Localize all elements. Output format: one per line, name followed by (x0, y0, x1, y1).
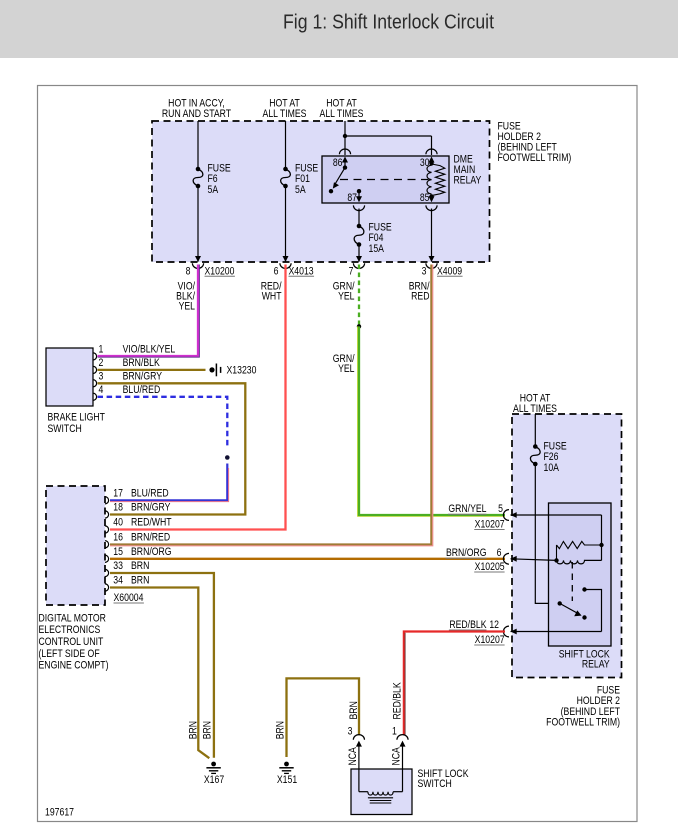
splice node on GRN/YEL (357, 324, 361, 328)
svg-text:BRN: BRN (275, 721, 287, 739)
relay switch rest contact dot (329, 189, 333, 193)
figure number 197617 (45, 807, 74, 819)
exit arrow at x=431.5 (429, 256, 435, 262)
relay resistor junction dot (599, 543, 603, 547)
svg-text:30: 30 (420, 157, 430, 169)
wire: pin 87 down to fuse F04 (358, 209, 360, 227)
svg-text:34: 34 (113, 575, 123, 587)
wire RED/BLK relay pin 12 to shift lock switch pin 1 (404, 632, 505, 736)
wire: feed into fuse F26 (534, 414, 536, 447)
DME pin 33 (105, 569, 109, 576)
svg-text:X10207: X10207 (475, 634, 505, 646)
wire: fuse F04 to connector 7 (358, 245, 360, 262)
brake light switch box (46, 348, 93, 406)
svg-text:ALL TIMES: ALL TIMES (263, 108, 307, 120)
wire BRN shift lock switch pin 3 to ground X151 (287, 678, 360, 757)
svg-text:1: 1 (99, 344, 104, 356)
svg-text:BRAKE LIGHT: BRAKE LIGHT (48, 412, 105, 424)
brake switch pin 3 (93, 380, 97, 387)
wire GRN/YEL dashed segment from connector 7 (358, 265, 360, 327)
wire: feed 1 vertical (197, 121, 199, 169)
svg-text:X10207: X10207 (475, 519, 505, 531)
relay pin 30 (426, 149, 437, 154)
svg-text:33: 33 (113, 560, 123, 572)
wire BRN/RED (brown/red) connector 3 to DME pin 16 (110, 265, 433, 546)
svg-text:RELAY: RELAY (582, 659, 610, 671)
shift lock switch box (351, 769, 412, 815)
DME pin 34 (105, 584, 109, 591)
svg-text:5A: 5A (295, 184, 306, 196)
svg-text:85: 85 (420, 192, 430, 204)
svg-text:BLU/RED: BLU/RED (123, 384, 161, 396)
connector label X60004 (114, 592, 144, 604)
label BRN/ORG 6 X10205 (446, 547, 487, 559)
fuse holder 2 dashed box (right) (512, 414, 622, 678)
svg-text:RED/WHT: RED/WHT (131, 517, 172, 529)
svg-text:5A: 5A (208, 184, 219, 196)
svg-text:BRN/ORG: BRN/ORG (131, 546, 172, 558)
label RED/BLK 12 X10207 (449, 619, 487, 631)
svg-text:12: 12 (489, 619, 499, 631)
svg-text:FOOTWELL TRIM): FOOTWELL TRIM) (498, 152, 572, 164)
svg-text:(LEFT SIDE OF: (LEFT SIDE OF (39, 648, 100, 660)
wire GRN/YEL solid to shift lock relay pin 5 (358, 326, 505, 516)
relay pin 5 internal line (511, 512, 517, 518)
svg-text:BRN: BRN (188, 721, 200, 739)
exit arrow at x=198 (195, 256, 201, 262)
relay resistor (zigzag) (557, 541, 602, 548)
relay mechanical link (dashed) (340, 179, 429, 181)
svg-text:X151: X151 (277, 774, 298, 786)
fuse F6 5A (196, 167, 201, 172)
svg-text:15A: 15A (369, 243, 385, 255)
DME pin 18 (105, 511, 109, 518)
wire BRN/GRY pin 3 to DME pin 18 (98, 383, 246, 514)
svg-text:18: 18 (113, 502, 123, 514)
svg-text:3: 3 (422, 265, 427, 277)
svg-text:1: 1 (392, 726, 397, 738)
wire VIO/BLK/YEL (violet) connector 8 to brake light switch pin 1 (98, 265, 199, 357)
svg-text:RED/BLK: RED/BLK (392, 682, 404, 720)
svg-text:7: 7 (349, 265, 354, 277)
svg-text:6: 6 (497, 547, 502, 559)
brake light switch caption (48, 412, 105, 424)
svg-text:YEL: YEL (338, 291, 355, 303)
brake switch pin 4 (93, 393, 97, 400)
svg-text:3: 3 (348, 726, 353, 738)
connector label 8 X10200 (186, 265, 191, 277)
feed label HOT IN ACCY, RUN AND START (168, 97, 225, 109)
svg-text:86: 86 (333, 157, 343, 169)
svg-text:NCA: NCA (347, 747, 359, 766)
svg-text:RELAY: RELAY (454, 175, 482, 187)
svg-text:RED: RED (411, 291, 429, 303)
fuse holder 2 dashed box (top) (152, 121, 490, 262)
shift lock relay caption (559, 649, 610, 661)
svg-text:87: 87 (347, 192, 357, 204)
relay coil resistor (zigzag) (432, 164, 445, 196)
svg-text:YEL: YEL (179, 301, 196, 313)
wire BRN/ORG DME pin 15 to shift lock relay pin 6 (110, 558, 505, 560)
wire BRN label at X151 (275, 721, 287, 739)
wire label BRN/RED (409, 281, 430, 293)
svg-text:197617: 197617 (45, 807, 74, 819)
relay coil (557, 560, 602, 563)
connector label 3 X4009 (422, 265, 427, 277)
switch pin 3 connector (348, 726, 353, 738)
shift lock switch caption (418, 768, 469, 780)
svg-text:NCA: NCA (391, 747, 403, 766)
relay pin 86 connector arc (339, 149, 350, 154)
svg-text:4: 4 (99, 384, 104, 396)
svg-text:SWITCH: SWITCH (418, 778, 452, 790)
relay pin 6 internal line (511, 556, 517, 562)
exit arrow at x=285.5 (283, 256, 289, 262)
relay switch arm (86 to throw) (343, 165, 347, 169)
wire BLU/RED dashed from pin 4 (98, 397, 228, 449)
svg-text:CONTROL UNIT: CONTROL UNIT (39, 636, 104, 648)
svg-text:16: 16 (113, 532, 123, 544)
label GRN/YEL 5 X10207 (448, 503, 487, 515)
svg-text:17: 17 (113, 488, 123, 500)
svg-text:SWITCH: SWITCH (48, 423, 82, 435)
svg-text:VIO/BLK/YEL: VIO/BLK/YEL (123, 344, 176, 356)
svg-text:BRN: BRN (131, 575, 149, 587)
wire label VIO/BLK/YEL (178, 281, 196, 293)
relay pin 87 (357, 189, 361, 193)
DME pin 15 (105, 555, 109, 562)
svg-text:BRN: BRN (131, 560, 149, 572)
shift lock relay box (549, 503, 612, 646)
svg-text:BLU/RED: BLU/RED (131, 488, 169, 500)
svg-text:3: 3 (99, 371, 104, 383)
svg-text:X60004: X60004 (114, 592, 144, 604)
wire label GRN/YEL (upper) (333, 281, 355, 293)
fuse F04 15A (357, 224, 362, 229)
svg-text:ELECTRONICS: ELECTRONICS (39, 624, 101, 636)
svg-text:2: 2 (99, 357, 104, 369)
relay pin 85 (429, 194, 433, 198)
feed label HOT AT ALL TIMES (fuse F01) (269, 97, 300, 109)
svg-text:BRN/BLK: BRN/BLK (123, 357, 161, 369)
diagram frame (38, 86, 638, 822)
label FUSE HOLDER 2 (BEHIND LEFT FOOTWELL TRIM) top (498, 121, 522, 133)
switch solenoid symbol (358, 769, 360, 792)
svg-text:RUN AND START: RUN AND START (162, 108, 231, 120)
connector label 6 X4013 (274, 265, 279, 277)
brake switch pin 2 (93, 366, 97, 373)
DME caption (39, 613, 106, 625)
wire BRN/BLK pin 2 to X13230 (98, 369, 206, 371)
fuse F01 5A (283, 167, 288, 172)
svg-text:GRN/YEL: GRN/YEL (448, 503, 487, 515)
svg-text:X4009: X4009 (437, 265, 463, 277)
svg-text:BRN: BRN (348, 701, 360, 719)
relay pin 86 arrow (344, 162, 346, 168)
svg-text:X10200: X10200 (205, 265, 235, 277)
svg-text:BRN: BRN (202, 721, 214, 739)
relay mechanical link dashed (571, 562, 573, 601)
connector label 7 (349, 265, 354, 277)
switch pin 1 connector (392, 726, 397, 738)
svg-text:YEL: YEL (338, 363, 355, 375)
wire label RED/BLK (pin 1) (392, 682, 404, 720)
svg-text:6: 6 (274, 265, 279, 277)
svg-text:8: 8 (186, 265, 191, 277)
svg-text:X13230: X13230 (227, 365, 257, 377)
svg-text:FOOTWELL TRIM): FOOTWELL TRIM) (546, 717, 620, 729)
wire: feed 2 vertical (285, 121, 287, 169)
DME pin 40 (105, 526, 109, 533)
svg-text:BRN/RED: BRN/RED (131, 532, 170, 544)
svg-text:15: 15 (113, 546, 123, 558)
wire: pin 85 down to connector 3 (431, 209, 433, 262)
wire BRN DME pin 34 to ground X167 (110, 588, 209, 759)
svg-text:40: 40 (113, 517, 123, 529)
brake switch pin 1 (93, 353, 97, 360)
wire BRN DME pin 33 to ground X167 (110, 573, 214, 758)
svg-text:ALL TIMES: ALL TIMES (320, 108, 364, 120)
relay switch arm (560, 603, 578, 613)
svg-text:10A: 10A (544, 462, 560, 474)
wire BLU/RED solid to DME pin 17 (110, 464, 227, 501)
svg-text:BRN/GRY: BRN/GRY (123, 371, 163, 383)
ground X151 (284, 762, 289, 767)
svg-text:X167: X167 (204, 774, 225, 786)
relay pin 12 internal line (511, 629, 517, 635)
title bar (0, 0, 678, 58)
relay switch pivot (558, 601, 562, 605)
svg-text:BRN/GRY: BRN/GRY (131, 502, 171, 514)
wire RED/WHT (red) connector 6 to DME pin 40 (110, 265, 286, 530)
svg-text:DIGITAL MOTOR: DIGITAL MOTOR (39, 613, 106, 625)
relay coil (arcs) (427, 165, 432, 194)
connector X13230 symbol (209, 367, 214, 372)
svg-text:5: 5 (498, 503, 503, 515)
DME pin 17 (105, 497, 109, 504)
exit arrow at x=359 (356, 256, 362, 262)
svg-text:X4013: X4013 (289, 265, 315, 277)
wire: branch to relay pin 30 (345, 135, 432, 137)
svg-text:ENGINE COMPT): ENGINE COMPT) (39, 660, 109, 672)
svg-text:RED/BLK: RED/BLK (449, 619, 487, 631)
digital motor electronics control unit dashed box (46, 486, 105, 605)
splice node on BLU/RED (225, 455, 230, 460)
feed label HOT AT ALL TIMES (DME relay) (326, 97, 357, 109)
svg-text:WHT: WHT (262, 291, 282, 303)
wire label BRN (pin 3) (348, 701, 360, 719)
svg-text:Fig 1: Shift Interlock Circuit: Fig 1: Shift Interlock Circuit (283, 12, 494, 34)
label FUSE HOLDER 2 (BEHIND LEFT FOOTWELL TRIM) bottom (597, 685, 621, 697)
relay U: DME MAIN RELAY box (322, 156, 449, 203)
wire label GRN/YEL (lower) (333, 353, 355, 365)
DME pin 16 (105, 541, 109, 548)
svg-text:BRN/ORG: BRN/ORG (446, 547, 487, 559)
wire BRN labels at X167 (188, 721, 200, 739)
wire: fuse F26 down to relay common (535, 464, 559, 603)
relay coil junction dot (pin 6) (554, 558, 558, 562)
ground X167 (211, 762, 216, 767)
wire: feed 3 vertical + branch node (344, 121, 346, 155)
wire label RED/WHT (261, 281, 282, 293)
feed label HOT AT ALL TIMES (shift lock relay) (520, 393, 551, 405)
svg-text:X10205: X10205 (475, 561, 505, 573)
fuse F26 10A (533, 444, 538, 449)
relay switch throw contact (582, 587, 586, 591)
